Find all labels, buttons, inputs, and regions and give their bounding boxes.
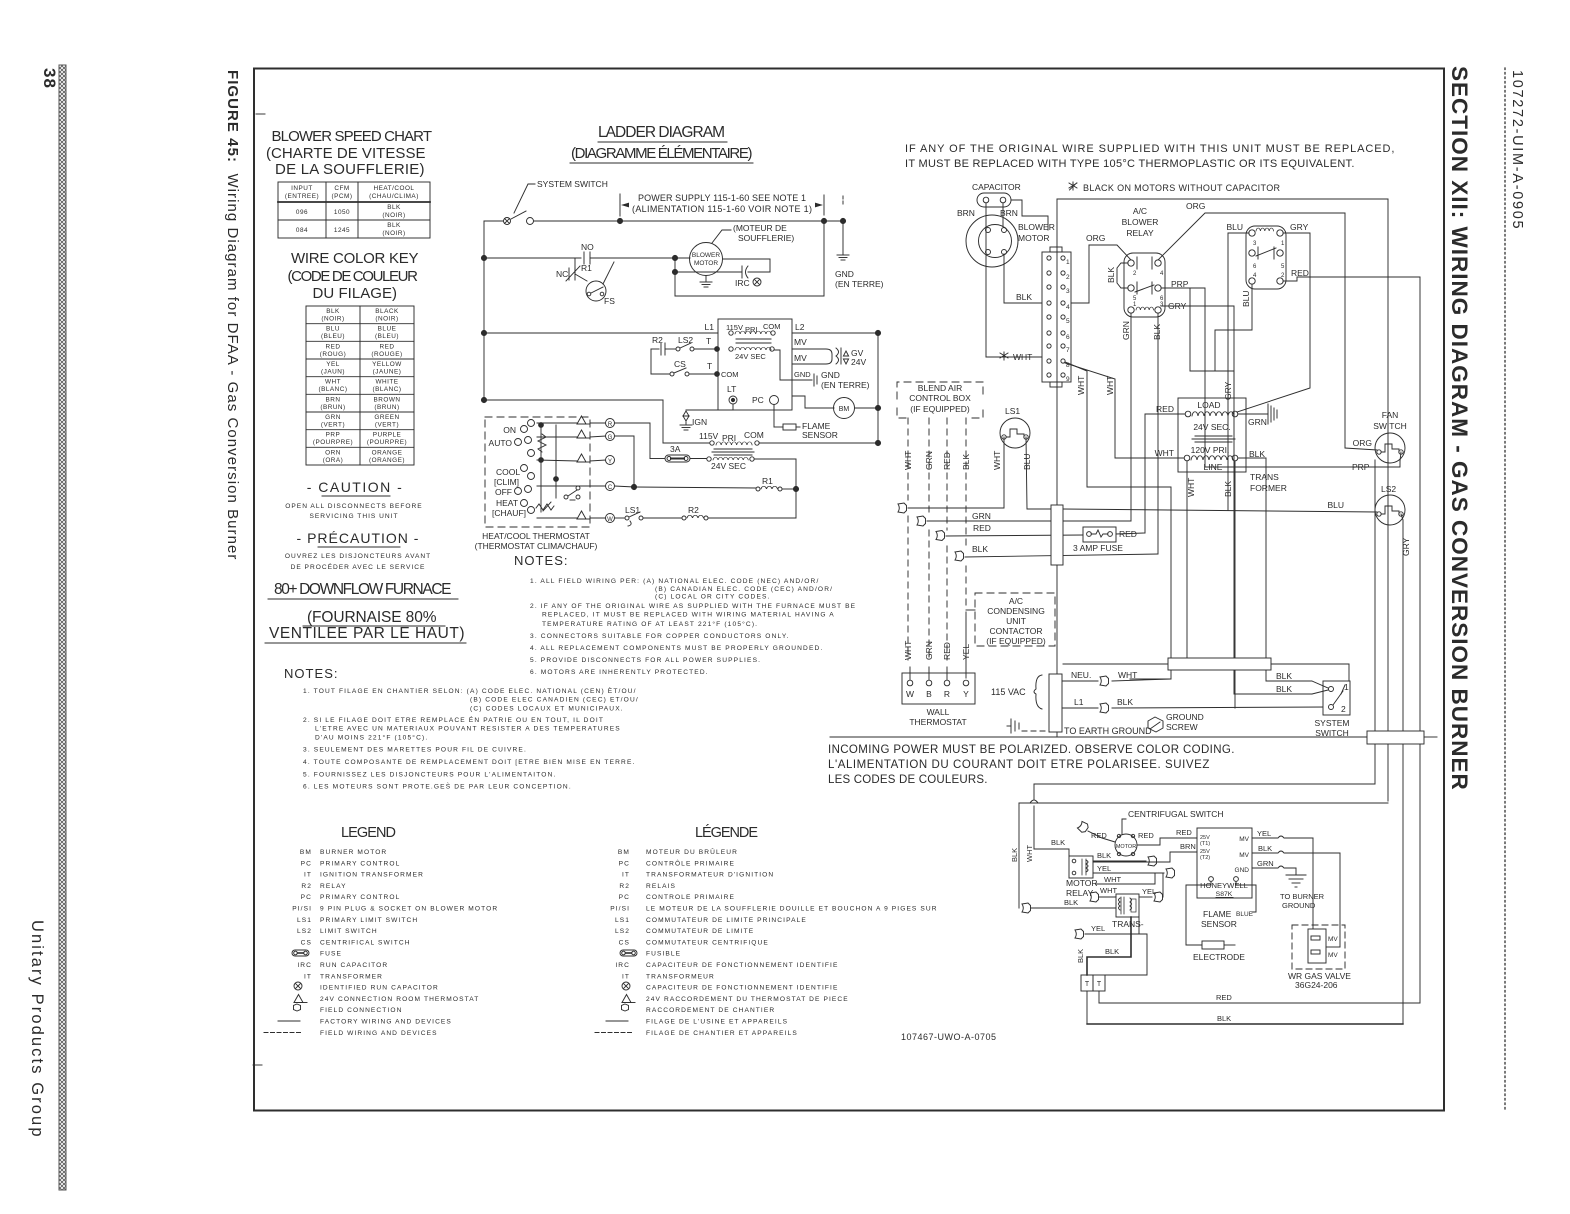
- svg-text:COMMUTATEUR DE LIMITE: COMMUTATEUR DE LIMITE: [646, 928, 754, 935]
- svg-text:COM: COM: [721, 370, 739, 379]
- svg-text:Unitary Products Group: Unitary Products Group: [28, 920, 46, 1139]
- svg-text:(T2): (T2): [1200, 855, 1210, 861]
- svg-text:LES CODES DE COULEURS.: LES CODES DE COULEURS.: [828, 774, 988, 786]
- svg-text:A/C: A/C: [1133, 206, 1147, 216]
- row 4: 115V PRI lower transformer: [484, 399, 663, 401]
- svg-text:MV: MV: [1328, 936, 1338, 943]
- IGN ground from LT: [732, 404, 734, 410]
- svg-text:GRN: GRN: [924, 641, 934, 660]
- svg-text:GROUND: GROUND: [1282, 901, 1316, 910]
- svg-text:RELAY: RELAY: [320, 883, 347, 890]
- gas valve GV (WR 36G24-206): [1292, 925, 1345, 969]
- BLU row from bundle to LS2: [1063, 509, 1377, 512]
- svg-text:R2: R2: [619, 883, 630, 890]
- svg-text:WHT: WHT: [1104, 875, 1121, 884]
- svg-text:VENTILEE PAR LE HAUT): VENTILEE PAR LE HAUT): [269, 625, 465, 642]
- svg-text:FIELD WIRING AND DEVICES: FIELD WIRING AND DEVICES: [320, 1030, 438, 1037]
- svg-text:IGN: IGN: [692, 417, 707, 427]
- svg-text:FAN: FAN: [1382, 410, 1399, 420]
- svg-text:(ROUGE): (ROUGE): [371, 351, 402, 358]
- svg-text:BM: BM: [839, 406, 850, 413]
- svg-text:BLOWER: BLOWER: [1122, 217, 1159, 227]
- svg-text:PRIMARY LIMIT SWITCH: PRIMARY LIMIT SWITCH: [320, 917, 418, 924]
- svg-text:1. TOUT FILAGE EN CHANTIER SEL: 1. TOUT FILAGE EN CHANTIER SELON: (A) CO…: [303, 686, 637, 695]
- svg-text:BLK: BLK: [1223, 481, 1233, 497]
- svg-text:(FOURNAISE 80%: (FOURNAISE 80%: [307, 609, 437, 626]
- svg-text:WHT: WHT: [1076, 376, 1086, 395]
- svg-text:BLU: BLU: [1241, 290, 1251, 307]
- svg-text:SENSOR: SENSOR: [1201, 919, 1237, 929]
- blower speed table: [278, 182, 430, 238]
- svg-text:GND: GND: [821, 370, 840, 380]
- svg-text:6: 6: [1253, 264, 1257, 270]
- svg-text:- PRÉCAUTION -: - PRÉCAUTION -: [297, 530, 420, 546]
- row 2: NO contact R1: [484, 257, 581, 259]
- svg-text:HONEYWELL: HONEYWELL: [1200, 881, 1248, 890]
- WHT lead to pin 8: [986, 356, 1042, 358]
- svg-text:UNIT: UNIT: [1006, 616, 1026, 626]
- svg-text:CONTROL BOX: CONTROL BOX: [909, 393, 971, 403]
- svg-text:(NOIR): (NOIR): [382, 230, 405, 237]
- svg-text:CENTRIFICAL SWITCH: CENTRIFICAL SWITCH: [320, 939, 411, 946]
- R1 relay coil row: [634, 487, 756, 488]
- svg-text:24V SEC.: 24V SEC.: [1193, 422, 1230, 432]
- svg-text:2. SI LE FILAGE DOIT ETRE REMP: 2. SI LE FILAGE DOIT ETRE REMPLACE ÉN P…: [303, 715, 604, 724]
- svg-text:BLU: BLU: [1226, 222, 1243, 232]
- svg-text:BLU: BLU: [1022, 453, 1032, 470]
- legend icons FR: [620, 950, 637, 956]
- svg-text:NEU.: NEU.: [1071, 670, 1091, 680]
- svg-text:CS: CS: [301, 939, 312, 946]
- svg-text:5. FOURNISSEZ LES DISJONCTEURS: 5. FOURNISSEZ LES DISJONCTEURS POUR L'AL…: [303, 772, 556, 779]
- system switch SW1 (unit diagram): [1323, 681, 1350, 715]
- svg-text:PRIMARY CONTROL: PRIMARY CONTROL: [320, 894, 400, 901]
- svg-text:115 VAC: 115 VAC: [991, 687, 1026, 697]
- 24V connection triangles: [577, 416, 590, 424]
- svg-text:R: R: [608, 422, 613, 428]
- svg-text:24V CONNECTION ROOM THERMOSTAT: 24V CONNECTION ROOM THERMOSTAT: [320, 996, 479, 1003]
- svg-text:HEAT/COOL: HEAT/COOL: [374, 185, 415, 192]
- svg-text:FORMER: FORMER: [1250, 483, 1287, 493]
- svg-text:BLK: BLK: [1010, 848, 1019, 862]
- svg-text:FIGURE 45: Wiring Diagram for: FIGURE 45: Wiring Diagram for DFAA - Gas…: [224, 70, 241, 560]
- svg-text:1: 1: [1133, 302, 1137, 308]
- svg-text:MV: MV: [1239, 836, 1249, 843]
- svg-text:OUVREZ LES DISJONCTEURS AVANT: OUVREZ LES DISJONCTEURS AVANT: [285, 553, 431, 560]
- BLK from 120V PRI right: [1238, 458, 1312, 681]
- svg-text:PC: PC: [752, 395, 764, 405]
- svg-text:(EN TERRE): (EN TERRE): [821, 380, 870, 390]
- svg-text:24V RACCORDEMENT DU THERMOSTAT: 24V RACCORDEMENT DU THERMOSTAT DE PIECE: [646, 996, 849, 1003]
- svg-text:IT: IT: [622, 872, 630, 879]
- svg-text:CONTACTOR: CONTACTOR: [989, 626, 1042, 636]
- svg-text:TO EARTH GROUND: TO EARTH GROUND: [1064, 726, 1152, 736]
- svg-text:WHT: WHT: [1025, 845, 1034, 862]
- svg-text:(B) CODE ELEC CANADIEN (CEC) E: (B) CODE ELEC CANADIEN (CEC) ET/OU/: [470, 697, 639, 704]
- svg-text:(ENTREE): (ENTREE): [285, 193, 319, 200]
- svg-text:GND: GND: [835, 269, 854, 279]
- svg-text:(ORANGE): (ORANGE): [369, 457, 405, 464]
- svg-text:36G24-206: 36G24-206: [1295, 980, 1338, 990]
- svg-text:3: 3: [1253, 241, 1257, 247]
- svg-text:9: 9: [1066, 376, 1070, 383]
- svg-text:MOTEUR DU BRÛLEUR: MOTEUR DU BRÛLEUR: [646, 847, 738, 856]
- svg-text:FILAGE DE CHANTIER ET APPAREIL: FILAGE DE CHANTIER ET APPAREILS: [646, 1030, 798, 1037]
- svg-text:LINE: LINE: [1204, 462, 1223, 472]
- svg-text:(BRUN): (BRUN): [320, 404, 345, 411]
- svg-text:(BRUN): (BRUN): [374, 404, 399, 411]
- svg-text:(VERT): (VERT): [321, 422, 345, 429]
- svg-text:T: T: [1085, 981, 1090, 988]
- wire: top power row: [484, 220, 504, 222]
- svg-text:107467-UWO-A-0705: 107467-UWO-A-0705: [901, 1032, 997, 1042]
- 9 pin connector PI/SI: [1042, 252, 1071, 382]
- svg-text:GRN: GRN: [1121, 321, 1131, 340]
- wire bundle (fan circuit): [1063, 663, 1168, 665]
- svg-text:PURPLE: PURPLE: [373, 432, 402, 439]
- svg-text:LIMIT SWITCH: LIMIT SWITCH: [320, 928, 378, 935]
- svg-text:RED: RED: [1138, 831, 1154, 840]
- svg-text:Y: Y: [608, 459, 612, 465]
- gas valve GV 24V: [792, 349, 832, 364]
- svg-text:2: 2: [1341, 704, 1346, 714]
- svg-text:CONTROLE PRIMAIRE: CONTROLE PRIMAIRE: [646, 894, 735, 901]
- tick marks: [256, 113, 265, 115]
- svg-text:RED: RED: [942, 642, 952, 660]
- svg-text:(NOIR): (NOIR): [321, 316, 344, 323]
- primary control U1 (Honeywell S87K): [1197, 828, 1252, 898]
- svg-text:TEMPERATURE RATING OF AT LEAST: TEMPERATURE RATING OF AT LEAST 221°F (10…: [542, 620, 758, 628]
- svg-text:BLUE: BLUE: [1236, 911, 1254, 918]
- svg-text:BM: BM: [300, 849, 312, 856]
- svg-text:PRP: PRP: [326, 432, 341, 439]
- svg-text:COM: COM: [744, 430, 764, 440]
- IRC run capacitor: [723, 258, 771, 260]
- svg-text:BLU: BLU: [326, 326, 340, 333]
- svg-text:(BLANC): (BLANC): [372, 386, 401, 393]
- svg-text:ORG: ORG: [1186, 201, 1205, 211]
- svg-text:COMMUTATEUR CENTRIFIQUE: COMMUTATEUR CENTRIFIQUE: [646, 939, 769, 946]
- svg-text:CONDENSING: CONDENSING: [987, 606, 1045, 616]
- svg-text:GRN: GRN: [1248, 417, 1267, 427]
- svg-text:CFM: CFM: [334, 185, 349, 192]
- svg-text:115V: 115V: [726, 323, 743, 332]
- svg-text:BRN: BRN: [1180, 842, 1196, 851]
- svg-text:BLK: BLK: [1276, 684, 1292, 694]
- svg-text:LADDER DIAGRAM: LADDER DIAGRAM: [598, 124, 726, 141]
- svg-text:L1: L1: [1074, 697, 1084, 707]
- svg-text:(JAUN): (JAUN): [321, 369, 345, 376]
- svg-text:(CHARTE DE VITESSE: (CHARTE DE VITESSE: [266, 145, 426, 162]
- svg-text:(CHAU/CLIMA): (CHAU/CLIMA): [369, 193, 419, 200]
- svg-text:2: 2: [1133, 271, 1137, 277]
- top rail from connector: [1057, 198, 1388, 200]
- svg-text:3. SEULEMENT DES MARETTES POUR: 3. SEULEMENT DES MARETTES POUR FIL DE CU…: [303, 747, 527, 754]
- svg-text:(C) CODES LOCAUX ET MUNICIPAUX: (C) CODES LOCAUX ET MUNICIPAUX.: [470, 706, 624, 713]
- svg-text:1: 1: [1281, 241, 1285, 247]
- blower speed chart title: [266, 128, 433, 178]
- loop to right rail: [674, 272, 676, 296]
- svg-text:3A: 3A: [670, 444, 681, 454]
- svg-text:THERMOSTAT: THERMOSTAT: [909, 717, 966, 727]
- svg-text:BRN: BRN: [326, 396, 341, 403]
- svg-text:1050: 1050: [334, 209, 350, 216]
- svg-text:IGNITION TRANSFORMER: IGNITION TRANSFORMER: [320, 872, 424, 879]
- svg-text:ON: ON: [503, 425, 516, 435]
- svg-text:(BLEU): (BLEU): [375, 333, 399, 340]
- svg-text:LS2: LS2: [297, 928, 312, 935]
- svg-text:115V: 115V: [699, 431, 719, 441]
- svg-text:BLK: BLK: [1051, 838, 1065, 847]
- svg-text:(T1): (T1): [1200, 841, 1210, 847]
- svg-text:(PCM): (PCM): [332, 193, 353, 200]
- svg-text:S87K: S87K: [1216, 891, 1233, 898]
- svg-text:(POURPRE): (POURPRE): [313, 439, 353, 446]
- svg-text:BLACK: BLACK: [375, 308, 399, 315]
- svg-text:096: 096: [296, 209, 308, 216]
- svg-text:(POURPRE): (POURPRE): [367, 439, 407, 446]
- svg-text:MV: MV: [1239, 852, 1249, 859]
- svg-text:BLK: BLK: [1076, 949, 1085, 963]
- svg-text:MV: MV: [1328, 952, 1338, 959]
- svg-text:BLK: BLK: [1064, 898, 1078, 907]
- svg-text:RELAY: RELAY: [1126, 228, 1154, 238]
- G wire: [615, 436, 635, 487]
- svg-text:PC: PC: [301, 860, 312, 867]
- 24V control transformer box: [718, 319, 792, 410]
- wire to transformer top (node): [1190, 288, 1234, 398]
- svg-text:OPEN ALL DISCONNECTS BEFORE: OPEN ALL DISCONNECTS BEFORE: [285, 503, 422, 510]
- svg-text:NC: NC: [556, 269, 568, 279]
- wire GRY from fan relay to transformer LOAD: [1237, 233, 1310, 412]
- svg-text:BLK: BLK: [961, 454, 971, 470]
- svg-text:- CAUTION -: - CAUTION -: [307, 479, 404, 495]
- svg-text:GRY: GRY: [1401, 537, 1411, 556]
- svg-text:(IF EQUIPPED): (IF EQUIPPED): [910, 404, 970, 414]
- svg-text:IF ANY OF THE ORIGINAL WIRE SU: IF ANY OF THE ORIGINAL WIRE SUPPLIED WIT…: [905, 143, 1395, 155]
- svg-text:CONTRÔLE PRIMAIRE: CONTRÔLE PRIMAIRE: [646, 858, 735, 867]
- svg-text:IRC: IRC: [735, 278, 750, 288]
- svg-text:CS: CS: [619, 939, 630, 946]
- svg-text:(CODE DE COULEUR: (CODE DE COULEUR: [288, 268, 419, 285]
- A/C condensing contactor dashed box: [975, 593, 1055, 646]
- svg-text:PC: PC: [619, 860, 630, 867]
- svg-text:T: T: [1097, 981, 1102, 988]
- svg-text:LE MOTEUR DE LA SOUFFLERIE DOU: LE MOTEUR DE LA SOUFFLERIE DOUILLE ET BO…: [646, 906, 938, 913]
- svg-text:PRP: PRP: [1352, 462, 1370, 472]
- svg-text:FUSE: FUSE: [320, 951, 342, 958]
- svg-text:W: W: [906, 689, 914, 699]
- svg-text:PRI: PRI: [722, 433, 736, 443]
- gnd lug right of box: [792, 379, 812, 381]
- svg-text:PI/SI: PI/SI: [292, 906, 312, 913]
- svg-text:(BLEU): (BLEU): [321, 333, 345, 340]
- svg-text:SOUFFLERIE): SOUFFLERIE): [738, 233, 794, 243]
- svg-text:(IF EQUIPPED): (IF EQUIPPED): [986, 636, 1046, 646]
- svg-text:5: 5: [1281, 264, 1285, 270]
- svg-text:L1: L1: [705, 322, 715, 332]
- svg-text:TRANSFORMER: TRANSFORMER: [320, 973, 383, 980]
- svg-text:COM: COM: [763, 322, 781, 331]
- svg-text:SYSTEM: SYSTEM: [1315, 718, 1350, 728]
- svg-text:LEGEND: LEGEND: [341, 825, 397, 841]
- svg-text:YEL: YEL: [1091, 924, 1105, 933]
- svg-text:LS1: LS1: [1005, 406, 1020, 416]
- svg-text:COMMUTATEUR DE LIMITE PRINCIPA: COMMUTATEUR DE LIMITE PRINCIPALE: [646, 917, 807, 924]
- svg-text:SENSOR: SENSOR: [802, 430, 838, 440]
- wall thermostat: [902, 673, 975, 704]
- svg-text:RELAIS: RELAIS: [646, 883, 676, 890]
- svg-text:RACCORDEMENT DE CHANTIER: RACCORDEMENT DE CHANTIER: [646, 1007, 775, 1014]
- svg-text:DE LA SOUFFLERIE): DE LA SOUFFLERIE): [275, 161, 425, 178]
- svg-text:NO: NO: [581, 242, 594, 252]
- RED run to gas valve circuit: [1098, 991, 1100, 1003]
- svg-text:MV: MV: [794, 353, 807, 363]
- svg-text:(NOIR): (NOIR): [375, 316, 398, 323]
- svg-text:BM: BM: [618, 849, 630, 856]
- svg-text:LOAD: LOAD: [1197, 400, 1220, 410]
- svg-text:BLK: BLK: [387, 222, 401, 229]
- svg-text:FILAGE DE L'USINE ET APPAREILS: FILAGE DE L'USINE ET APPAREILS: [646, 1019, 788, 1026]
- svg-text:RED: RED: [1291, 268, 1309, 278]
- svg-text:FACTORY WIRING AND DEVICES: FACTORY WIRING AND DEVICES: [320, 1019, 452, 1026]
- electrode E1: [1202, 941, 1224, 949]
- svg-text:LÉGENDE: LÉGENDE: [695, 824, 759, 841]
- C wire: [615, 486, 635, 487]
- svg-text:1. ALL FIELD WIRING PER: (A) N: 1. ALL FIELD WIRING PER: (A) NATIONAL EL…: [530, 578, 819, 585]
- L2 wire to right rail: [792, 332, 878, 334]
- svg-text:4: 4: [1066, 304, 1070, 311]
- svg-text:SYSTEM SWITCH: SYSTEM SWITCH: [537, 179, 608, 189]
- svg-text:WALL: WALL: [927, 707, 950, 717]
- svg-text:FLAME: FLAME: [1203, 909, 1232, 919]
- svg-text:RED: RED: [1176, 828, 1192, 837]
- svg-text:COOL: COOL: [496, 467, 520, 477]
- svg-text:CENTRIFUGAL SWITCH: CENTRIFUGAL SWITCH: [1128, 809, 1224, 819]
- svg-text:RUN CAPACITOR: RUN CAPACITOR: [320, 962, 388, 969]
- svg-text:4: 4: [1253, 273, 1257, 279]
- svg-text:BLU: BLU: [1327, 500, 1344, 510]
- transformer T1 (24V control transformer, unit diagram): [1178, 398, 1246, 472]
- svg-text:WHT: WHT: [1013, 352, 1032, 362]
- svg-text:(NOIR): (NOIR): [382, 212, 405, 219]
- svg-text:POWER SUPPLY 115-1-60 SEE NOTE: POWER SUPPLY 115-1-60 SEE NOTE 1: [638, 193, 806, 203]
- svg-text:YEL: YEL: [1142, 887, 1156, 896]
- relay R2 pins: [1249, 230, 1255, 236]
- svg-text:R1: R1: [581, 263, 592, 273]
- blower motor (unit): [966, 215, 1018, 267]
- svg-text:GROUND: GROUND: [1166, 712, 1204, 722]
- svg-text:TRANSFORMATEUR D'IGNITION: TRANSFORMATEUR D'IGNITION: [646, 872, 774, 879]
- svg-text:SERVICING THIS UNIT: SERVICING THIS UNIT: [309, 513, 398, 520]
- svg-text:IRC: IRC: [615, 962, 630, 969]
- svg-text:FS: FS: [604, 296, 615, 306]
- blend box dashed conductors: [908, 418, 966, 660]
- svg-text:3. CONNECTORS SUITABLE FOR COP: 3. CONNECTORS SUITABLE FOR COPPER CONDUC…: [530, 633, 790, 640]
- BM burner motor (ladder): [792, 396, 834, 408]
- svg-text:2: 2: [1281, 273, 1285, 279]
- fan switch FS: [586, 281, 606, 301]
- svg-text:GRY: GRY: [1223, 381, 1233, 400]
- 24V SEC lower coil: [707, 457, 711, 461]
- svg-text:R2: R2: [301, 883, 312, 890]
- svg-text:TRANS: TRANS: [1250, 472, 1279, 482]
- svg-text:L'ALIMENTATION DU COURANT DOIT: L'ALIMENTATION DU COURANT DOIT ETRE POLA…: [828, 759, 1210, 771]
- svg-text:BLOWER: BLOWER: [1018, 222, 1055, 232]
- wire color key table: [306, 306, 414, 465]
- R wire: [615, 423, 651, 459]
- svg-text:YEL: YEL: [1257, 829, 1271, 838]
- svg-text:BROWN: BROWN: [374, 396, 401, 403]
- wires: feed rails into burner section: [1019, 802, 1388, 804]
- svg-text:A/C: A/C: [1009, 596, 1023, 606]
- svg-text:ORG: ORG: [1353, 438, 1372, 448]
- main diagram frame: [254, 69, 1444, 1111]
- wire: lower separator run + bundle: [830, 736, 1367, 738]
- svg-text:4. ALL REPLACEMENT COMPONENTS: 4. ALL REPLACEMENT COMPONENTS MUST BE PR…: [530, 645, 823, 652]
- svg-text:PC: PC: [301, 894, 312, 901]
- svg-text:WHT: WHT: [903, 451, 913, 470]
- ground GND right of ladder: [842, 221, 844, 255]
- svg-text:3: 3: [1066, 288, 1070, 295]
- svg-text:SWITCH: SWITCH: [1315, 728, 1349, 738]
- wire BLU from fan relay pin 3: [1228, 233, 1249, 510]
- svg-text:CS: CS: [674, 359, 686, 369]
- ground: earth ground symbol: [1007, 719, 1019, 733]
- svg-text:084: 084: [296, 227, 308, 234]
- svg-text:L'ETRE AVEC UN MATERIAUX POUVA: L'ETRE AVEC UN MATERIAUX POUVANT RESISTE…: [315, 726, 621, 733]
- svg-text:2. IF ANY OF THE ORIGINAL WIRE: 2. IF ANY OF THE ORIGINAL WIRE AS SUPPLI…: [530, 603, 856, 610]
- svg-text:GND: GND: [1235, 867, 1250, 874]
- svg-text:(ORA): (ORA): [323, 457, 344, 464]
- svg-text:(BLANC): (BLANC): [318, 386, 347, 393]
- svg-text:T: T: [706, 336, 711, 346]
- BLK lead to pin 4: [1004, 254, 1042, 303]
- svg-text:SCREW: SCREW: [1166, 722, 1198, 732]
- svg-text:WHT: WHT: [992, 451, 1002, 470]
- svg-text:D'AU MOINS 221°F (105°C).: D'AU MOINS 221°F (105°C).: [315, 734, 428, 742]
- svg-text:MOTOR: MOTOR: [1116, 844, 1136, 850]
- svg-text:LS1: LS1: [615, 917, 630, 924]
- svg-text:(JAUNE): (JAUNE): [373, 369, 402, 376]
- svg-text:MOTOR: MOTOR: [1066, 878, 1097, 888]
- svg-text:CAPACITOR: CAPACITOR: [972, 182, 1021, 192]
- wire: long verticals right-mid: [1374, 460, 1376, 784]
- svg-text:MOTOR: MOTOR: [1018, 233, 1049, 243]
- svg-text:BLK: BLK: [1276, 671, 1292, 681]
- svg-text:LS1: LS1: [297, 917, 312, 924]
- svg-text:RED: RED: [380, 343, 395, 350]
- svg-text:LT: LT: [727, 384, 736, 394]
- svg-text:GRN: GRN: [972, 511, 991, 521]
- svg-text:SWITCH: SWITCH: [1373, 421, 1407, 431]
- svg-text:WHT: WHT: [1155, 448, 1174, 458]
- wire color key title: [288, 250, 420, 302]
- svg-text:24V: 24V: [851, 357, 866, 367]
- svg-text:WHITE: WHITE: [375, 379, 398, 386]
- svg-text:MOTOR: MOTOR: [694, 260, 718, 267]
- svg-text:ORANGE: ORANGE: [372, 449, 403, 456]
- svg-text:GREEN: GREEN: [374, 414, 399, 421]
- svg-text:WIRE COLOR KEY: WIRE COLOR KEY: [291, 250, 419, 267]
- svg-text:BLK: BLK: [1152, 324, 1162, 340]
- incoming power note: [828, 744, 1235, 786]
- svg-text:WHT: WHT: [1100, 886, 1117, 895]
- svg-text:24V SEC: 24V SEC: [735, 352, 766, 361]
- svg-text:BLEND AIR: BLEND AIR: [918, 383, 962, 393]
- svg-text:GRN: GRN: [924, 451, 934, 470]
- svg-text:NOTES:: NOTES:: [284, 666, 339, 681]
